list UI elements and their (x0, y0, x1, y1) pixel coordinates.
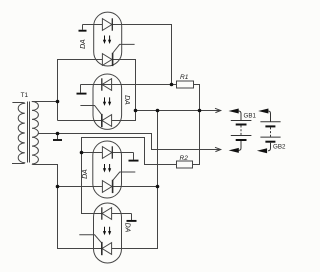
junction node dots (56, 83, 202, 189)
light arrows inside DA4 (103, 227, 111, 236)
light arrows inside DA1 (103, 36, 111, 45)
svg-text:DA: DA (80, 39, 87, 49)
DA1 gate (113, 44, 135, 53)
wire oval2 thyristor left lead (58, 120, 102, 122)
DA3 thyristor cathode bar (112, 180, 114, 193)
wire horizontal bus to GB connector top (136, 110, 221, 112)
wire right bus vertical (112, 111, 158, 249)
wire R2 left through left loop to ovals 3,4 (82, 138, 177, 214)
wire R1 right to vertical link (193, 85, 200, 165)
optocoupler DA3 body (93, 141, 122, 198)
DA3 LED diode (102, 147, 112, 159)
DA1 photothyristor diode (102, 54, 112, 66)
DA4 thyristor cathode bar (101, 242, 103, 255)
wire transformer bottom lead and left bus lower segment (33, 165, 102, 249)
battery GB1 bottom pin arrow (239, 141, 242, 150)
DA2 gate (80, 106, 101, 115)
DA2 thyristor cathode bar (101, 114, 103, 127)
svg-text:T1: T1 (21, 92, 29, 99)
ground at DA4 LED (127, 214, 137, 221)
wire transformer centre tap to GB connector bottom (38, 134, 221, 150)
svg-text:R1: R1 (180, 74, 189, 81)
DA1 LED cathode bar (111, 18, 113, 30)
svg-text:DA: DA (123, 95, 130, 105)
DA3 LED cathode bar (111, 146, 113, 158)
ground at DA1 LED (79, 25, 87, 31)
battery GB2 bottom pin arrow (268, 143, 271, 151)
battery GB2 cells (260, 121, 280, 123)
wire oval3 thyristor line (58, 186, 158, 188)
svg-text:DA: DA (124, 223, 131, 233)
DA2 LED diode (102, 79, 112, 91)
light arrows inside DA3 (103, 164, 111, 173)
transformer T1 core (28, 102, 30, 163)
wire oval1 LED anode with ground lead (83, 24, 103, 26)
battery GB2 top pin arrow (258, 109, 268, 114)
resistor R1 (177, 81, 194, 88)
wire oval1 thyristor cathode to mid bus (112, 60, 136, 121)
light arrows inside DA2 (103, 97, 111, 106)
wire left bus upper segment (58, 60, 103, 121)
DA4 gate (79, 235, 101, 243)
ground at centre tap (53, 134, 62, 141)
transformer T1 primary winding (12, 103, 25, 164)
DA4 LED cathode bar (101, 207, 103, 219)
DA4 LED diode (102, 208, 112, 220)
ground at DA3 LED (129, 153, 139, 161)
battery GB1 cells (231, 120, 252, 122)
resistor R2 (177, 161, 193, 168)
svg-text:GB2: GB2 (273, 143, 286, 150)
DA3 photothyristor diode (102, 181, 112, 193)
wire oval1 LED cathode to R1 junction (112, 25, 171, 85)
transformer T1 secondary winding (32, 102, 38, 165)
optocoupler DA1 body (94, 12, 122, 66)
DA1 LED diode (102, 19, 112, 31)
wire secondary bottom lead (32, 163, 33, 166)
connector socket top (open arrow) (215, 108, 221, 112)
ground at DA2 LED (77, 85, 87, 94)
optocoupler DA2 body (93, 74, 122, 129)
wire oval4 LED cathode right with ground (112, 213, 132, 215)
svg-text:R2: R2 (180, 155, 189, 162)
wire secondary top lead to left bus (32, 101, 58, 104)
DA1 thyristor cathode bar (112, 53, 114, 66)
DA4 photothyristor diode (102, 243, 112, 255)
DA2 LED cathode bar (101, 78, 103, 90)
DA3 gate (113, 172, 135, 180)
wire oval3 LED line (82, 152, 134, 154)
connector socket bottom (open arrow) (215, 147, 221, 151)
battery GB1 top pin arrow (229, 109, 239, 114)
svg-text:GB1: GB1 (244, 112, 257, 119)
DA2 photothyristor diode (102, 115, 112, 127)
wire oval2 LED line to R1 (81, 84, 177, 86)
svg-text:DA: DA (82, 169, 89, 179)
optocoupler DA4 body (94, 203, 122, 263)
